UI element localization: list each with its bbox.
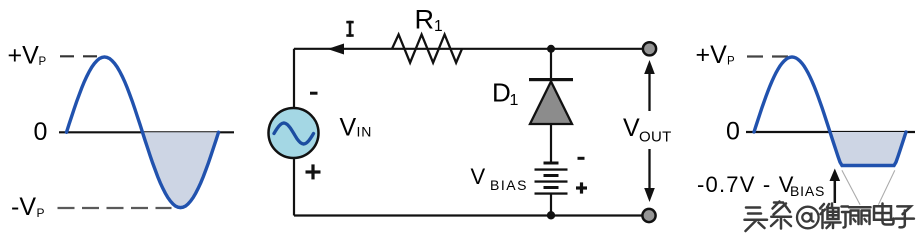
- clip level pointer arrow: [834, 177, 837, 203]
- node: junction top: [547, 45, 555, 53]
- right graph: clipped region fill: [830, 132, 906, 166]
- battery plus sign: [576, 186, 587, 189]
- svg-text:OUT: OUT: [639, 128, 672, 145]
- leader line right: [878, 170, 894, 204]
- svg-text:V: V: [623, 114, 640, 142]
- svg-text:P: P: [39, 56, 47, 68]
- svg-text:D: D: [492, 78, 511, 108]
- battery minus sign: [578, 157, 585, 160]
- right graph: output axis: [746, 131, 915, 133]
- terminal: output top: [643, 42, 656, 55]
- diode D1 triangle: [530, 82, 572, 125]
- svg-text:1: 1: [434, 18, 443, 35]
- svg-text:BIAS: BIAS: [490, 177, 528, 193]
- svg-text:0: 0: [726, 118, 740, 146]
- source plus sign: [306, 170, 321, 173]
- source minus sign: [310, 92, 318, 95]
- wire: top horizontal from source to output terminal: [294, 48, 645, 50]
- svg-text:+V: +V: [8, 42, 40, 70]
- wire: battery to bottom wire: [550, 194, 552, 216]
- resistor R1: [392, 35, 462, 63]
- label I: [346, 21, 353, 24]
- current arrow I: [328, 44, 345, 55]
- watermark: toutiao logo text: [745, 202, 914, 232]
- svg-text:IN: IN: [357, 124, 373, 140]
- source VIN circle: [269, 108, 319, 158]
- svg-text:-V: -V: [11, 193, 36, 221]
- svg-text:V: V: [340, 114, 357, 142]
- left graph: negative half-cycle shaded fill: [143, 132, 219, 207]
- diode D1 cathode bar: [529, 78, 573, 81]
- left graph: +Vp dashed level line: [60, 55, 97, 57]
- svg-text:0: 0: [34, 118, 48, 146]
- svg-text:1: 1: [510, 92, 519, 109]
- svg-text:BIAS: BIAS: [790, 183, 825, 199]
- right graph: clipped output wave: [754, 57, 906, 166]
- left graph: -Vp dashed level line: [58, 207, 172, 209]
- terminal: output bottom: [642, 209, 655, 222]
- svg-text:+V: +V: [696, 41, 728, 69]
- svg-text:-0.7V - V: -0.7V - V: [697, 172, 795, 197]
- node: junction bottom: [547, 211, 555, 219]
- wire: diode to battery: [550, 124, 552, 163]
- wire: diode branch from top wire to diode: [550, 49, 552, 79]
- watermark: @ glyph: [797, 207, 819, 229]
- wire: left loop vertical from top wire to bottom wire: [293, 49, 295, 216]
- VOUT arrow down: [648, 149, 650, 189]
- battery VBIAS plates: [544, 162, 559, 165]
- source VIN sine symbol: [274, 123, 314, 144]
- left graph: input waveform axis: [59, 131, 234, 133]
- wire: bottom horizontal from source to output terminal: [294, 214, 645, 216]
- svg-text:R: R: [415, 5, 435, 35]
- svg-text:P: P: [37, 206, 45, 220]
- right graph: +Vp dashed level line: [747, 55, 789, 57]
- svg-text:P: P: [727, 56, 735, 68]
- svg-text:V: V: [471, 164, 486, 189]
- left graph: input sine wave: [67, 57, 219, 208]
- VOUT arrow up: [648, 72, 650, 111]
- leader line left: [842, 170, 860, 204]
